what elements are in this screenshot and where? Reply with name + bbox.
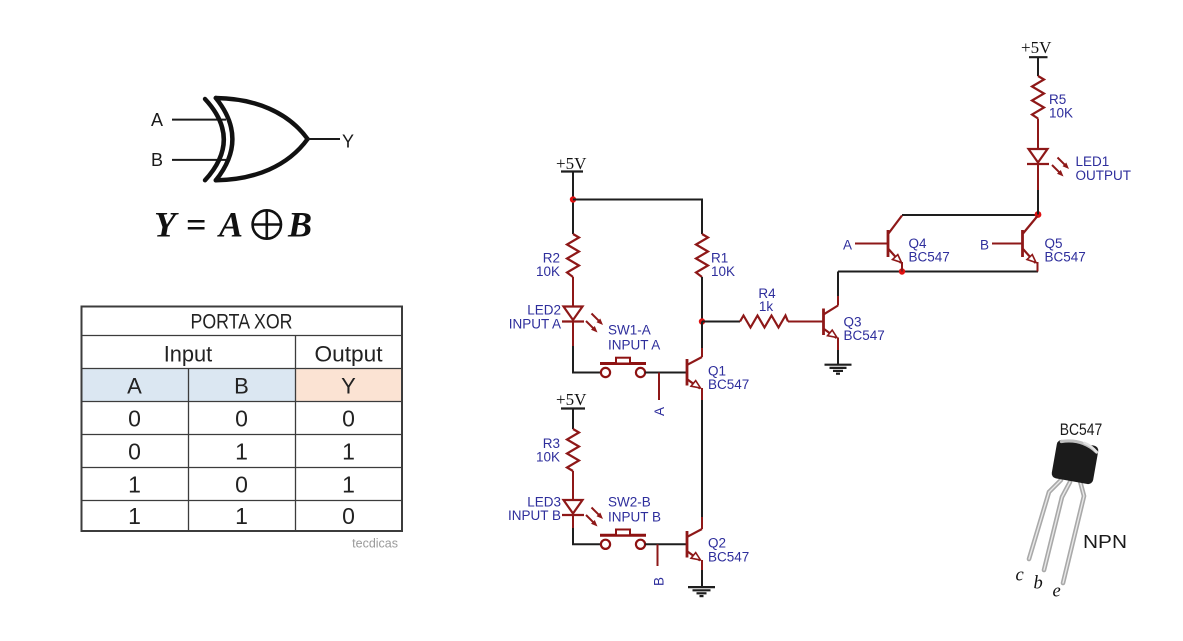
svg-text:0: 0 xyxy=(342,503,355,529)
wire node to Q1 collector xyxy=(701,322,703,349)
BC547 leg c xyxy=(1029,480,1061,559)
svg-text:1: 1 xyxy=(128,503,141,529)
wire +5V B down xyxy=(572,409,574,430)
LED1 light arrows xyxy=(1052,158,1069,177)
power +5V rail B bar xyxy=(561,407,585,409)
XOR gate U1 xyxy=(205,98,308,180)
svg-text:0: 0 xyxy=(235,406,248,432)
svg-text:BC547: BC547 xyxy=(1045,250,1086,265)
wire R2 to LED2 xyxy=(572,277,574,307)
wire node to R4 xyxy=(702,321,740,323)
switch SW1-A xyxy=(600,358,646,377)
svg-text:1: 1 xyxy=(342,472,355,498)
svg-text:1: 1 xyxy=(235,439,248,465)
resistor R1 xyxy=(696,234,708,277)
BC547 body xyxy=(1051,438,1099,485)
svg-text:+5V: +5V xyxy=(1021,38,1052,57)
LED3 light arrows xyxy=(586,508,603,527)
wire Q1 emitter to Q2 collector xyxy=(701,388,703,400)
transistor Q1 xyxy=(687,357,702,389)
svg-text:0: 0 xyxy=(128,406,141,432)
table cell fill Y xyxy=(295,369,402,403)
wire emitter rail (bottom) xyxy=(838,271,1038,273)
wire Q4 emitter to node xyxy=(901,262,903,272)
wire top rail A xyxy=(573,200,702,235)
wire R5 to LED1 xyxy=(1037,119,1039,150)
svg-text:0: 0 xyxy=(342,406,355,432)
transistor Q3 xyxy=(824,306,839,339)
svg-text:c: c xyxy=(1016,566,1025,586)
svg-text:B: B xyxy=(151,150,163,170)
wire R4 to Q3 base xyxy=(788,321,824,323)
ground under Q3 xyxy=(825,365,852,374)
table cell fill B xyxy=(188,369,295,403)
svg-text:+5V: +5V xyxy=(556,390,587,409)
truth table xyxy=(82,307,403,532)
node junction Q4 emitter xyxy=(899,268,905,274)
wire LED1 to node xyxy=(1037,164,1039,190)
wire A to Q4 base xyxy=(855,243,888,245)
wire Q3 collector up xyxy=(837,296,839,306)
svg-text:INPUT A: INPUT A xyxy=(608,338,660,353)
resistor R5 xyxy=(1032,76,1044,119)
svg-text:Input: Input xyxy=(164,342,213,367)
svg-text:1: 1 xyxy=(235,503,248,529)
svg-text:1k: 1k xyxy=(759,299,774,314)
svg-text:Q2: Q2 xyxy=(708,536,726,551)
svg-text:0: 0 xyxy=(235,472,248,498)
svg-text:+5V: +5V xyxy=(556,154,587,173)
svg-text:10K: 10K xyxy=(536,450,560,465)
svg-text:10K: 10K xyxy=(711,264,735,279)
svg-text:=: = xyxy=(186,205,207,245)
wire +5V out down xyxy=(1037,57,1039,76)
ground under Q2 xyxy=(688,587,715,596)
BC547 leg e xyxy=(1063,481,1084,583)
svg-text:B: B xyxy=(287,205,312,245)
table row 1 xyxy=(128,406,355,530)
BC547 package photo xyxy=(1016,421,1128,602)
resistor R3 xyxy=(567,429,579,471)
svg-text:SW2-B: SW2-B xyxy=(608,495,651,510)
net B tap wire xyxy=(657,544,659,566)
LED LED1 xyxy=(1027,149,1049,164)
wire Q3 emitter to ground xyxy=(837,338,839,351)
table grid xyxy=(82,307,403,532)
svg-text:INPUT B: INPUT B xyxy=(608,510,661,525)
svg-text:B: B xyxy=(652,577,667,586)
transistor Q5 xyxy=(1023,216,1038,263)
wire SW2 to Q2 base xyxy=(645,543,687,545)
svg-text:A: A xyxy=(127,374,142,399)
wire Q2 emitter to ground xyxy=(701,560,703,570)
output Y wire xyxy=(308,138,340,140)
svg-text:1: 1 xyxy=(342,439,355,465)
LED2 light arrows xyxy=(586,314,603,333)
power +5V rail A bar xyxy=(561,170,583,172)
svg-text:NPN: NPN xyxy=(1083,532,1127,552)
table cell fill A xyxy=(82,369,189,403)
svg-text:BC547: BC547 xyxy=(708,550,749,565)
transistor Q2 xyxy=(687,529,702,561)
svg-text:INPUT B: INPUT B xyxy=(508,508,561,523)
svg-text:B: B xyxy=(980,238,989,253)
svg-text:PORTA XOR: PORTA XOR xyxy=(191,311,293,334)
resistor R4 xyxy=(740,316,788,328)
transistor Q4 xyxy=(888,216,902,264)
svg-text:BC547: BC547 xyxy=(708,377,749,392)
svg-text:A: A xyxy=(151,110,163,130)
svg-text:tecdicas: tecdicas xyxy=(352,537,398,551)
LED LED3 xyxy=(562,500,584,515)
wire B to Q5 base xyxy=(992,243,1023,245)
svg-text:1: 1 xyxy=(128,472,141,498)
switch SW2-B xyxy=(600,530,646,549)
input A wire xyxy=(172,119,226,121)
wire R1 to node xyxy=(701,277,703,322)
svg-text:0: 0 xyxy=(128,439,141,465)
svg-text:INPUT A: INPUT A xyxy=(509,317,561,332)
svg-text:LED2: LED2 xyxy=(527,303,561,318)
svg-text:Y: Y xyxy=(342,132,354,152)
power +5V rail out bar xyxy=(1029,56,1048,58)
svg-text:10K: 10K xyxy=(1049,106,1073,121)
net A tap wire xyxy=(658,373,660,401)
resistor R2 xyxy=(567,234,579,277)
svg-text:BC547: BC547 xyxy=(909,250,950,265)
wire +5V A down xyxy=(572,172,574,235)
svg-text:SW1-A: SW1-A xyxy=(608,323,651,338)
svg-text:BC547: BC547 xyxy=(844,328,885,343)
node junction R1 R4 xyxy=(699,318,705,324)
input B wire xyxy=(172,159,226,161)
BC547 leg b xyxy=(1044,482,1070,570)
svg-text:B: B xyxy=(234,374,249,399)
svg-text:A: A xyxy=(652,407,667,416)
svg-text:OUTPUT: OUTPUT xyxy=(1076,168,1132,183)
wire SW1 to Q1 base xyxy=(645,372,687,374)
svg-text:A: A xyxy=(843,238,852,253)
svg-text:A: A xyxy=(217,205,243,245)
svg-text:BC547: BC547 xyxy=(1060,421,1103,439)
wire collector rail (top) xyxy=(902,214,1038,216)
formula xor symbol xyxy=(253,210,281,238)
svg-text:10K: 10K xyxy=(536,264,560,279)
svg-text:Y: Y xyxy=(341,374,356,399)
formula Y = A xor B xyxy=(154,205,312,245)
wire Q5 emitter down xyxy=(1037,262,1039,272)
node junction +5V A xyxy=(570,196,576,202)
svg-text:Output: Output xyxy=(315,342,383,367)
node junction LED1 xyxy=(1035,211,1042,218)
wire LED2 to switch xyxy=(572,322,574,347)
svg-text:e: e xyxy=(1053,582,1061,602)
svg-text:LED1: LED1 xyxy=(1076,154,1110,169)
wire R3 to LED3 xyxy=(572,471,574,500)
svg-text:b: b xyxy=(1034,574,1043,594)
svg-text:Y: Y xyxy=(154,205,179,245)
LED LED2 xyxy=(562,307,584,322)
wire LED3 to switch xyxy=(572,515,574,528)
